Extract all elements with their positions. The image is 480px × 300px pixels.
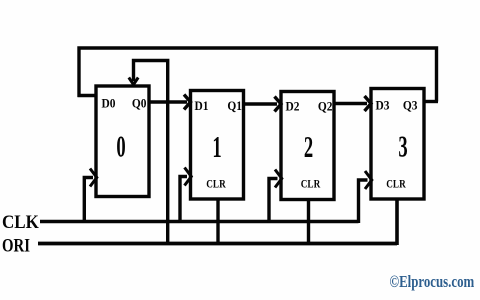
wire Q1 to D2 bbox=[242, 102, 277, 106]
svg-text:CLR: CLR bbox=[206, 179, 226, 191]
wire: D0 input stub from feedback into box 0 bbox=[78, 94, 98, 97]
wire: clock tap to U2 bbox=[269, 179, 278, 224]
arrowhead down into top of box 0 (preset) bbox=[129, 78, 138, 85]
wire Q2 to D3 bbox=[333, 102, 367, 106]
clock arrowhead U2 bbox=[275, 170, 282, 188]
svg-text:2: 2 bbox=[304, 129, 313, 164]
svg-text:CLR: CLR bbox=[301, 179, 321, 191]
svg-text:CLR: CLR bbox=[386, 179, 406, 191]
svg-text:D3: D3 bbox=[376, 98, 390, 113]
wire: clock tap to U0 bbox=[84, 178, 93, 224]
flip-flop U1 box bbox=[191, 91, 244, 200]
wire: CLR stub of U1 down to ORI line bbox=[216, 199, 219, 244]
clock arrowhead U1 bbox=[185, 168, 192, 186]
wire: CLK bus line bbox=[40, 220, 359, 224]
clock arrowhead U3 bbox=[365, 171, 372, 189]
wire Q0 to D1 bbox=[148, 100, 187, 104]
svg-text:D0: D0 bbox=[102, 96, 116, 111]
wire: CLR stub of U3 at end of ORI line bbox=[395, 199, 399, 245]
svg-text:Q3: Q3 bbox=[403, 98, 418, 113]
wire: ORI bus line bbox=[38, 242, 397, 246]
arrowhead into D1 bbox=[184, 95, 191, 110]
clock arrowhead U0 bbox=[90, 169, 97, 187]
wire: clock tap to U1 bbox=[180, 177, 187, 224]
wire: ORI preset riser between box0 and box1 bbox=[134, 61, 168, 244]
svg-text:D2: D2 bbox=[286, 99, 300, 114]
svg-text:CLK: CLK bbox=[2, 211, 39, 232]
wire: Q3 output stub from box 3 to feedback riser bbox=[423, 100, 438, 103]
svg-text:Q2: Q2 bbox=[318, 99, 333, 114]
svg-text:Q0: Q0 bbox=[132, 96, 147, 111]
flip-flop U0 box bbox=[96, 86, 149, 197]
wire: CLR stub of U2 down to ORI line bbox=[307, 200, 310, 244]
flip-flop U2 box bbox=[281, 92, 334, 200]
svg-text:D1: D1 bbox=[195, 98, 209, 113]
wire: clock riser to U3 at end of CLK line bbox=[359, 180, 368, 223]
wire: top feedback line from Q3 to D0 bbox=[79, 48, 437, 102]
svg-text:0: 0 bbox=[116, 129, 125, 164]
svg-text:1: 1 bbox=[212, 129, 221, 164]
arrowhead into D3 bbox=[365, 96, 372, 111]
arrowhead into D2 bbox=[275, 97, 282, 112]
svg-text:Q1: Q1 bbox=[227, 98, 242, 113]
svg-text:3: 3 bbox=[398, 129, 407, 164]
svg-text:©Elprocus.com: ©Elprocus.com bbox=[390, 274, 475, 292]
flip-flop U3 box bbox=[371, 89, 424, 200]
svg-text:ORI: ORI bbox=[2, 235, 30, 256]
